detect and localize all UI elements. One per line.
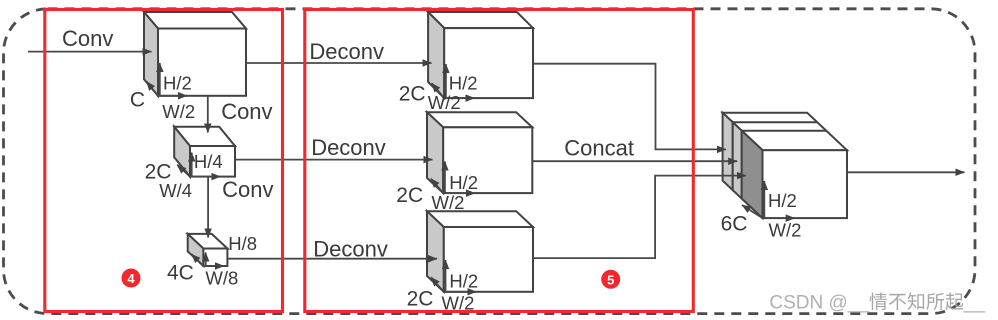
svg-text:W/2: W/2: [162, 101, 195, 122]
svg-text:Conv: Conv: [222, 177, 273, 202]
svg-text:2C: 2C: [399, 82, 426, 105]
svg-text:H/2: H/2: [768, 190, 797, 211]
svg-text:H/2: H/2: [449, 271, 478, 292]
svg-text:Deconv: Deconv: [313, 236, 388, 261]
svg-text:H/4: H/4: [194, 151, 223, 172]
svg-text:2C: 2C: [396, 184, 423, 207]
svg-text:Conv: Conv: [221, 99, 272, 124]
svg-text:2C: 2C: [407, 288, 434, 311]
svg-text:4: 4: [127, 271, 135, 286]
svg-text:5: 5: [607, 272, 614, 287]
svg-text:Deconv: Deconv: [309, 39, 384, 64]
svg-text:H/2: H/2: [449, 172, 478, 193]
svg-text:W/4: W/4: [159, 180, 192, 201]
svg-text:W/2: W/2: [428, 92, 461, 113]
svg-text:C: C: [130, 88, 145, 111]
svg-text:W/2: W/2: [769, 219, 802, 240]
svg-text:H/2: H/2: [449, 73, 478, 94]
svg-text:W/8: W/8: [205, 268, 238, 289]
svg-text:H/2: H/2: [163, 72, 192, 93]
svg-text:Concat: Concat: [564, 136, 634, 161]
svg-text:W/2: W/2: [432, 192, 465, 213]
svg-text:4C: 4C: [167, 261, 194, 284]
svg-text:Conv: Conv: [62, 26, 113, 51]
svg-text:6C: 6C: [721, 212, 748, 235]
svg-text:Deconv: Deconv: [311, 135, 386, 160]
svg-text:H/8: H/8: [228, 233, 257, 254]
svg-text:CSDN @__: CSDN @__: [769, 293, 869, 314]
svg-text:__: __: [963, 293, 986, 314]
